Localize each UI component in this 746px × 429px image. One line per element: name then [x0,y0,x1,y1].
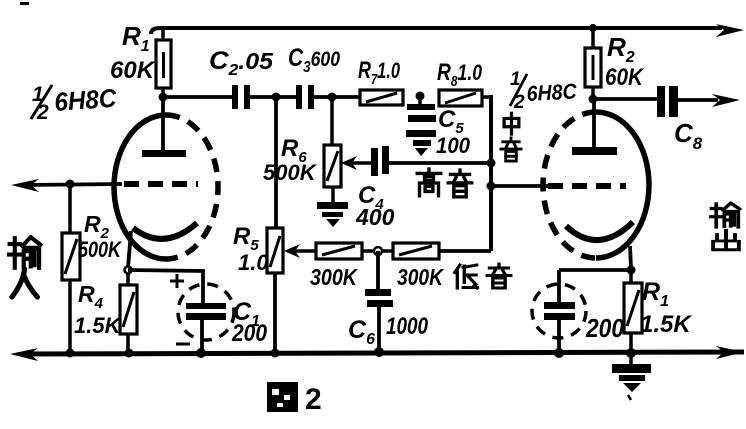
svg-text:300K: 300K [397,264,444,290]
resistor R1 1.5K (right cathode) [624,270,642,353]
node B junction dot (to R6) [328,93,337,102]
plus sign C1 [170,274,184,288]
tube V1 grid dashes [124,181,198,187]
label 1/2 6H8C right [510,69,578,113]
svg-text:1.0: 1.0 [238,250,269,275]
tube V2 cathode [566,222,633,268]
resistor R8 1.0 (horizontal) [439,90,482,106]
resistor R1 60K (left plate load) [156,28,171,97]
svg-text:300K: 300K [310,264,358,290]
wire C2 to C3 [250,95,297,99]
ground below R6 [317,202,348,227]
svg-text:100: 100 [436,133,471,158]
wire cathode row V1 [128,270,203,303]
capacitor C5 100 to ground [407,96,436,122]
wire R8 to feedback bus [482,95,491,99]
wire arrow top right B+ [716,24,744,37]
label 高音 [417,169,472,197]
capacitor 200 electrolytic (right cathode) [532,284,586,353]
tube V2 plate [572,99,617,155]
resistor R4 1.5K (cathode) [120,273,137,353]
svg-text:60K: 60K [605,64,644,91]
resistor R3 500K (grid leak, printed R2) [62,184,80,353]
svg-text:2: 2 [305,383,322,416]
wire C3 to R7 [314,95,360,99]
wire cathode row V2 [559,268,631,272]
tube V2 envelope [543,112,649,258]
wire plate V2 to C8 [593,97,657,101]
tube V1 envelope [114,115,218,259]
node cathode junction circle [125,267,132,274]
wire arrow bottom right [716,346,744,359]
svg-text:200: 200 [585,313,624,343]
resistor 300K left (低音) [316,243,362,259]
wire input line [24,184,122,185]
svg-text:1.5K: 1.5K [74,313,123,338]
resistor R2 60K (right plate load) [585,28,601,99]
wire top supply rail [151,28,722,34]
svg-text:2: 2 [36,101,49,124]
label 输入 [9,238,40,297]
wire bus bottom to 300K [439,249,491,253]
capacitor C8 (output coupling) [657,86,678,117]
capacitor C3 600 [296,85,314,109]
wiper arrow of R5 with wire [284,244,316,258]
node C junction dot (R7/R8) [416,92,425,101]
capacitor C6 1000 [365,251,393,352]
wiper arrow of R6 with wire [341,156,371,170]
svg-text:400: 400 [355,204,395,230]
svg-text:1000: 1000 [386,313,429,340]
tube V1 cathode [128,223,197,268]
label 低音 [455,264,511,288]
svg-text:500K: 500K [263,160,318,185]
stray mark top-left [20,2,29,5]
svg-text:1.5K: 1.5K [640,311,692,338]
wire arrow output line [712,94,740,107]
label 中音 vertical [501,113,521,161]
svg-text:2: 2 [513,92,525,113]
ground below C5 [406,130,436,156]
node A junction dot (to R5) [272,93,281,102]
svg-text:6H8C: 6H8C [526,79,578,106]
caption 圖 2 [267,382,322,416]
wire arrow bottom left [10,348,38,361]
wire arrow input left [11,179,39,192]
resistor 300K right (低音) [393,243,439,259]
node bus/grid junction dot [487,182,496,191]
wire plate line V1 to C2 [163,95,233,99]
capacitor C2 .05 [232,85,250,109]
wire feedback bus vertical [489,95,493,251]
node junction open circle (C6 tap) [362,247,393,255]
tube V1 plate [142,97,186,157]
potentiometer R5 1.0 [267,97,283,353]
potentiometer R6 500K [324,97,341,203]
svg-text:60K: 60K [110,57,156,84]
node plate of V1 / junction dot [159,93,168,102]
label 1/2 6H8C left [31,83,118,124]
wire C8 to output arrow [678,98,718,102]
wire bottom ground rail [24,352,744,354]
node rail dots [66,349,75,358]
minus sign C1 [176,343,190,346]
tube V2 grid dashes [548,183,626,189]
svg-text:200: 200 [231,320,267,347]
node V2 cathode junction dot [627,266,636,275]
ground below rail right [612,356,651,400]
wire bus to V2 grid [491,184,548,188]
resistor R7 1.0 (horizontal) [360,90,403,105]
node R2 top rail dot [589,24,597,32]
svg-text:500K: 500K [78,237,123,262]
node bus/C4 junction dot [487,159,496,168]
label 输出 [711,204,739,250]
capacitor C4 400 [371,146,389,176]
wire C4 to bus [389,161,491,165]
node input/R3 junction dot [66,180,75,189]
capacitor C1 200 electrolytic [178,284,234,353]
svg-text:6H8C: 6H8C [53,83,118,117]
node V2 plate junction dot [589,95,598,104]
